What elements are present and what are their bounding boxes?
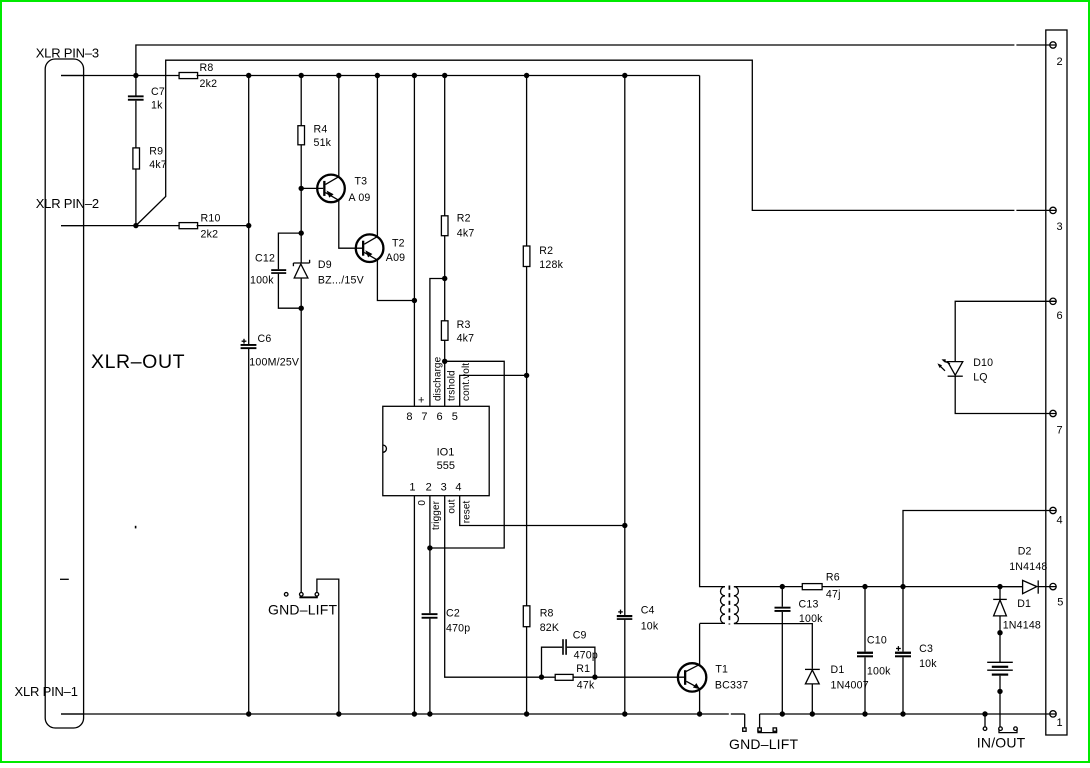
svg-text:100k: 100k	[250, 274, 274, 286]
wire T2 collector up	[376, 76, 378, 237]
capacitor C2	[422, 613, 438, 619]
svg-text:R3: R3	[457, 319, 471, 331]
svg-text:2: 2	[1057, 56, 1063, 68]
transistor T3	[301, 175, 345, 203]
capacitor C4	[617, 610, 633, 620]
IC 555 IO1	[383, 406, 489, 495]
svg-text:0: 0	[417, 500, 428, 506]
svg-text:C2: C2	[446, 608, 460, 620]
XLR connector outline	[45, 59, 83, 728]
junction node (429.9,548)	[427, 545, 432, 550]
svg-text:1: 1	[1057, 717, 1063, 729]
switch GND-LIFT (left)	[284, 593, 318, 599]
junction node (444.7,361.3)	[442, 359, 447, 364]
wire rail x=624.8 with C4	[624, 76, 626, 616]
junction node (624.8,525.5)	[622, 523, 627, 528]
svg-text:10k: 10k	[641, 620, 659, 632]
svg-text:5: 5	[452, 411, 458, 423]
wire divider chain x=444.7	[444, 76, 446, 216]
svg-text:3: 3	[1057, 221, 1063, 233]
svg-text:A09: A09	[386, 252, 405, 264]
svg-text:6: 6	[1057, 310, 1063, 322]
junction top rail (301.2,75.5)	[299, 73, 304, 78]
wire threshold-trigger bypass	[430, 361, 504, 548]
transistor T1	[678, 663, 706, 691]
svg-text:XLR–OUT: XLR–OUT	[91, 351, 185, 373]
junction node (594.9,677.1)	[592, 674, 597, 679]
svg-text:reset: reset	[461, 500, 472, 523]
transformer core	[728, 586, 730, 625]
wire T2 emitter to supply rail	[377, 260, 414, 300]
junction node (301.2,308.2)	[299, 306, 304, 311]
diode D2 1N4148	[1000, 580, 1056, 593]
svg-text:C12: C12	[255, 252, 275, 264]
junction ground rail (624.8,714)	[622, 711, 627, 716]
wire R1 to T1 base	[595, 676, 684, 678]
wire secondary bottom to D1	[734, 624, 812, 669]
svg-text:trigger: trigger	[431, 500, 442, 530]
junction node (301.2,188.4)	[299, 186, 304, 191]
pin 3	[1050, 207, 1056, 213]
svg-text:7: 7	[421, 411, 427, 423]
XLR pin-2 stub	[61, 225, 84, 227]
resistor R8 82K	[523, 606, 530, 627]
pin 4	[1050, 507, 1056, 513]
capacitor C10	[857, 587, 873, 714]
svg-text:C10: C10	[867, 634, 887, 646]
svg-text:4: 4	[455, 481, 461, 493]
wire T1 collector to transformer	[699, 624, 701, 667]
svg-text:T3: T3	[355, 176, 368, 188]
junction top rail (526.6,75.5)	[524, 73, 529, 78]
junction node (782.3,586.6)	[780, 584, 785, 589]
svg-text:470p: 470p	[574, 649, 598, 661]
svg-text:out: out	[446, 499, 457, 513]
svg-text:C9: C9	[573, 629, 587, 641]
output connector strip	[1046, 30, 1067, 735]
svg-text:C13: C13	[799, 599, 819, 611]
junction ground rail (782.3,714)	[780, 711, 785, 716]
junction ground rail (985,714)	[982, 711, 987, 716]
svg-text:XLR PIN–3: XLR PIN–3	[36, 46, 99, 61]
wire secondary top to output node	[734, 586, 802, 588]
transistor T2	[356, 234, 384, 262]
transformer TR primary winding	[721, 587, 726, 624]
svg-text:1N4148: 1N4148	[1003, 620, 1041, 632]
svg-text:100k: 100k	[799, 613, 823, 625]
svg-text:R2: R2	[457, 213, 471, 225]
diode D1 1N4007	[805, 669, 820, 714]
junction ground rail (248.7,714)	[246, 711, 251, 716]
svg-text:R2: R2	[539, 245, 553, 257]
svg-text:4k7: 4k7	[149, 159, 167, 171]
wire R6 output line	[822, 586, 1023, 588]
diode D1 1N4148	[993, 587, 1007, 633]
svg-text:2: 2	[426, 481, 432, 493]
wire pin-3 rail y=75.5	[61, 75, 179, 77]
transformer TR secondary winding	[734, 587, 739, 624]
svg-text:4k7: 4k7	[457, 228, 475, 240]
wire R4 to T3 base node	[300, 145, 302, 233]
svg-text:discharge: discharge	[432, 356, 443, 401]
wire rail x=526.6 with R2 128k and R8 82K	[526, 76, 528, 247]
svg-text:100M/25V: 100M/25V	[249, 357, 300, 369]
svg-text:C3: C3	[919, 643, 933, 655]
svg-text:R8: R8	[200, 62, 214, 74]
svg-text:R10: R10	[201, 213, 221, 225]
wire primary bottom to T1 collector	[700, 622, 725, 624]
junction node (1000,691.4)	[997, 689, 1002, 694]
svg-text:100k: 100k	[867, 666, 891, 678]
pin 5	[1050, 583, 1056, 589]
junction pin-2 rail (135.9,225.6)	[133, 223, 138, 228]
junction top rail (414.4,75.5)	[412, 73, 417, 78]
svg-text:8: 8	[406, 411, 412, 423]
svg-text:+: +	[418, 395, 424, 407]
junction top rail (135.9,75.5)	[133, 73, 138, 78]
svg-text:R9: R9	[149, 146, 163, 158]
resistor R10	[179, 223, 198, 229]
capacitor C13	[775, 587, 791, 714]
wire T1 emitter to ground	[699, 689, 701, 714]
wire 555 pin5 to rail	[460, 375, 527, 406]
resistor R2 128k	[523, 246, 530, 267]
junction node (301.2,233.1)	[299, 230, 304, 235]
junction node (903,586.6)	[900, 584, 905, 589]
ground rail (bottom)	[61, 713, 729, 715]
wire rail x=248.7 with C6	[248, 76, 250, 345]
junction top rail (338.8,75.5)	[336, 73, 341, 78]
svg-text:BZ.../15V: BZ.../15V	[318, 275, 365, 287]
svg-text:R6: R6	[826, 572, 840, 584]
svg-text:GND–LIFT: GND–LIFT	[729, 736, 799, 752]
wire pin-2 rail y=225.6	[61, 225, 179, 227]
svg-text:D1: D1	[831, 664, 845, 676]
wire top rail corner down to transformer primary top	[700, 76, 725, 587]
svg-text:1N4148: 1N4148	[1009, 561, 1047, 573]
svg-text:IN/OUT: IN/OUT	[977, 735, 1026, 751]
capacitor C6	[241, 339, 257, 349]
resistor R6	[802, 584, 822, 590]
svg-text:D1: D1	[1017, 598, 1031, 610]
pin 6	[1050, 298, 1056, 304]
junction node (1000,632.7)	[997, 630, 1002, 635]
wire 555 pin3 out	[445, 496, 542, 678]
svg-text:1k: 1k	[151, 100, 163, 112]
wire 555 pin1 to ground	[413, 496, 415, 714]
resistor R1	[542, 674, 595, 680]
wire 555 pin7 to divider	[430, 279, 445, 407]
resistor R3 4k7	[441, 321, 448, 341]
junction node (414.4,300.5)	[412, 298, 417, 303]
wire gnd-lift to ground rail	[317, 579, 339, 714]
junction top rail (444.7,75.5)	[442, 73, 447, 78]
XLR pin-3 stub	[61, 75, 84, 77]
svg-text:82K: 82K	[540, 622, 559, 634]
svg-text:5: 5	[1057, 597, 1063, 609]
junction node (526.6,375.4)	[524, 373, 529, 378]
resistor R2 4k7	[441, 216, 448, 236]
svg-text:470p: 470p	[446, 623, 470, 635]
svg-text:128k: 128k	[539, 259, 563, 271]
wire battery to switch	[999, 691, 1001, 727]
polarity dash	[60, 578, 69, 580]
junction node (541.5,677.1)	[539, 674, 544, 679]
svg-text:3: 3	[441, 481, 447, 493]
svg-text:2k2: 2k2	[201, 229, 219, 241]
wire T3 collector up	[338, 76, 340, 177]
svg-text:6: 6	[437, 411, 443, 423]
svg-text:1N4007: 1N4007	[831, 680, 869, 692]
capacitor C12	[271, 233, 301, 308]
wire 555 pin4 reset	[460, 496, 625, 526]
svg-text:C7: C7	[151, 86, 165, 98]
junction node (444.7,278.5)	[442, 276, 447, 281]
resistor R4	[298, 126, 305, 145]
wire to output pin 2 (top)	[136, 45, 1015, 76]
resistor R8	[179, 73, 198, 79]
junction ground rail (526.6,714)	[524, 711, 529, 716]
junction top rail (377.4,75.5)	[375, 73, 380, 78]
junction ground rail (429.9,714)	[427, 711, 432, 716]
zener diode D9	[293, 233, 309, 308]
junction ground rail (903,714)	[900, 711, 905, 716]
svg-text:XLR PIN–2: XLR PIN–2	[36, 196, 99, 211]
switch IN/OUT	[983, 714, 1017, 733]
wire 555 pin2 trigger with C2	[429, 496, 431, 614]
svg-text:IO1: IO1	[437, 447, 455, 459]
svg-text:51k: 51k	[314, 137, 332, 149]
junction ground rail (812.3,714)	[810, 711, 815, 716]
svg-text:A 09: A 09	[349, 192, 371, 204]
svg-text:LQ: LQ	[973, 372, 988, 384]
svg-text:XLR PIN–1: XLR PIN–1	[15, 684, 78, 699]
svg-text:C4: C4	[641, 605, 655, 617]
svg-text:D2: D2	[1018, 546, 1032, 558]
junction node (1000,586.6)	[997, 584, 1002, 589]
junction top rail (248.7,75.5)	[246, 73, 251, 78]
junction node (865,586.6)	[862, 584, 867, 589]
svg-text:7: 7	[1057, 425, 1063, 437]
svg-text:4k7: 4k7	[457, 333, 475, 345]
svg-text:R1: R1	[576, 663, 590, 675]
svg-text:47j: 47j	[826, 589, 841, 601]
svg-text:555: 555	[437, 460, 455, 472]
wire D9 node down to gnd-lift	[300, 308, 302, 592]
junction top rail (624.8,75.5)	[622, 73, 627, 78]
pin 2	[1050, 42, 1056, 48]
svg-text:T1: T1	[715, 664, 728, 676]
svg-text:D9: D9	[318, 259, 332, 271]
capacitor C3	[895, 587, 911, 714]
junction ground rail (414.4,714)	[412, 711, 417, 716]
svg-text:C6: C6	[258, 333, 272, 345]
svg-text:2k2: 2k2	[200, 78, 218, 90]
capacitor C9	[542, 639, 595, 677]
resistor R9	[133, 148, 140, 226]
junction pin-2 rail (248.7,225.6)	[246, 223, 251, 228]
svg-text:R4: R4	[314, 124, 328, 136]
wire supply rail x=414.4 (555 pin 8)	[413, 76, 415, 407]
switch GND-LIFT (right)	[743, 714, 777, 733]
svg-text:cont.volt: cont.volt	[461, 363, 472, 401]
svg-text:trshold: trshold	[447, 370, 458, 401]
LED D10	[937, 301, 1056, 413]
wire rail x=301.2 upper	[300, 76, 302, 126]
stray mark	[135, 526, 137, 529]
svg-text:1: 1	[409, 481, 415, 493]
svg-text:T2: T2	[392, 238, 405, 250]
battery	[987, 633, 1013, 692]
capacitor C7	[128, 76, 144, 148]
svg-text:D10: D10	[973, 357, 993, 369]
wire T3 emitter down to T2 base	[339, 200, 362, 248]
wire to output pin 3	[136, 60, 1015, 225]
XLR pin-1 stub	[61, 713, 84, 715]
svg-text:47k: 47k	[577, 679, 595, 691]
svg-text:BC337: BC337	[715, 680, 748, 692]
wire output pin4 to R6 line	[903, 511, 1056, 587]
junction ground rail (699.6,714)	[697, 711, 702, 716]
svg-text:GND–LIFT: GND–LIFT	[268, 602, 338, 618]
svg-text:4: 4	[1057, 515, 1063, 527]
pin 7	[1050, 410, 1056, 416]
svg-text:R8: R8	[540, 608, 554, 620]
junction ground rail (865,714)	[862, 711, 867, 716]
junction ground rail (338.8,714)	[336, 711, 341, 716]
pin 1	[1050, 711, 1056, 717]
svg-text:10k: 10k	[919, 658, 937, 670]
